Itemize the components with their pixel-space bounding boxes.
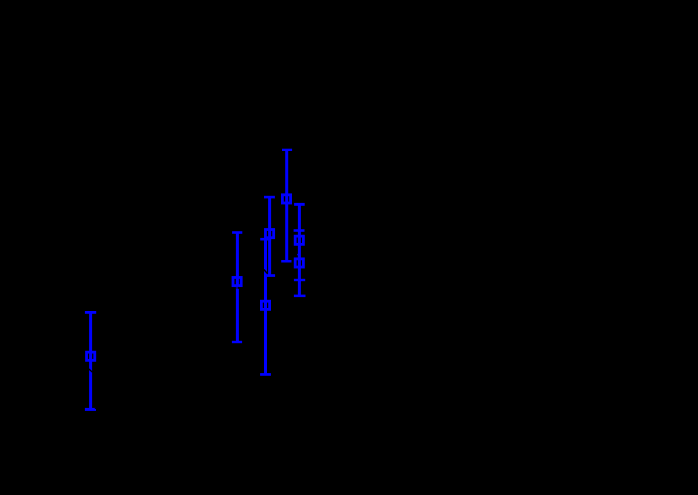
errorbar E2 vertical line (x=237.4): [236, 233, 239, 342]
errorbar E5 marker (open square): [282, 195, 290, 203]
errorbar E5 top cap: [282, 149, 292, 151]
errorbar E2 bottom cap: [232, 341, 242, 343]
errorbar E5 bottom cap: [281, 260, 291, 263]
errorbar E4 vertical line (x=269.6): [268, 197, 271, 275]
errorbar E4 marker (open square): [265, 230, 273, 238]
errorbar E2 marker (open square): [233, 277, 241, 285]
errorbar E3 bottom cap: [260, 373, 271, 376]
errorbar E2 line notch right: [238, 287, 239, 289]
errorbar E2 line notch left: [235, 287, 238, 289]
errorbar E7 bottom cap: [294, 295, 306, 298]
errorbar E1 cap notch: [95, 408, 96, 409]
errorbar E3 top cap: [260, 238, 271, 241]
errorbar E7 marker (open square): [295, 259, 303, 267]
errorbar E1 marker (open square): [87, 352, 95, 360]
errorbar E7 cap stub: [296, 254, 299, 255]
errorbar E1 vertical line (x=90.6): [89, 312, 92, 409]
errorbar E5 vertical line (x=286.7): [285, 150, 288, 261]
errorbar E1 bottom cap: [85, 408, 96, 411]
errorbar E3 line notch: [264, 270, 268, 274]
errorbar E4 top cap: [264, 196, 275, 199]
errorbar E1 top cap: [85, 311, 96, 314]
errorbar E6 vertical line (x=299.4): [298, 204, 301, 296]
errorbar E6 bottom cap: [294, 279, 305, 281]
errorbar E7 top cap: [294, 229, 305, 232]
errorbar E1 line notch: [89, 369, 93, 372]
errorbar E3 vertical line (x=265.5): [264, 239, 267, 374]
errorbar E6 top cap: [294, 203, 305, 206]
errorbar E2 top cap: [232, 231, 242, 234]
errorbar E3 marker (open square): [261, 301, 269, 309]
errorbar E6 marker (open square): [295, 236, 303, 244]
errorbar E4 bottom cap: [264, 274, 275, 277]
